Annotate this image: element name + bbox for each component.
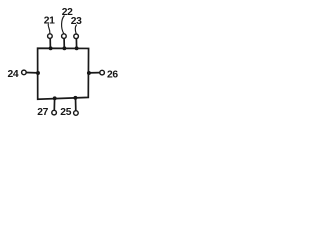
svg-text:24: 24: [8, 69, 19, 80]
wire pin23 stub: [75, 39, 77, 49]
wire pin21 stub: [49, 39, 51, 49]
wire pin25 stub: [75, 98, 77, 111]
leader wire label 23: [75, 25, 76, 34]
terminal circle 22: [62, 34, 67, 39]
junction dot pin22: [62, 46, 66, 50]
terminal circle 24: [22, 70, 27, 75]
junction dot pin21: [49, 46, 53, 50]
wire pin26: [88, 72, 99, 74]
svg-text:21: 21: [44, 16, 55, 27]
terminal circle 25: [74, 111, 79, 116]
wire pin27 stub: [53, 98, 55, 110]
wire pin22 stub: [63, 39, 65, 49]
svg-text:27: 27: [37, 107, 48, 118]
junction dot pin27: [53, 96, 57, 100]
svg-text:23: 23: [71, 16, 82, 27]
leader wire label 22: [62, 16, 65, 34]
component box: [38, 48, 89, 99]
junction dot pin24: [36, 71, 40, 75]
terminal circle 27: [52, 110, 57, 115]
junction dot pin25: [73, 96, 77, 100]
leader wire label 21: [48, 24, 50, 33]
svg-text:25: 25: [60, 107, 71, 118]
terminal circle 26: [100, 70, 105, 75]
terminal circle 23: [74, 34, 79, 39]
junction dot pin26: [87, 71, 91, 75]
svg-text:26: 26: [107, 69, 118, 80]
wire pin24: [26, 72, 38, 74]
terminal circle 21: [48, 34, 53, 39]
junction dot pin23: [75, 46, 79, 50]
